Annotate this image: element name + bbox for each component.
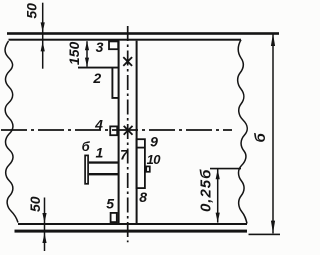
svg-text:9: 9 <box>150 134 158 150</box>
extension/tick line for 150 and top of tab 2 <box>78 67 119 69</box>
bottom plate upper edge <box>18 223 247 225</box>
weld seam right edge <box>136 41 138 224</box>
svg-text:0,25б: 0,25б <box>197 169 214 212</box>
svg-text:8: 8 <box>139 189 147 205</box>
vertical centerline of seam (dash-dot) <box>127 26 129 242</box>
dimension 0,25b: extension line <box>210 168 241 170</box>
dimension 0,25b: arrow up <box>216 169 220 179</box>
dimension 150: arrow down <box>85 58 89 67</box>
svg-text:б: б <box>252 132 269 142</box>
small lug 10 <box>146 166 150 171</box>
top plate upper edge (thick) <box>7 32 279 35</box>
right break (wavy) line <box>238 40 248 224</box>
dimension 0,25b: arrow down <box>216 213 220 223</box>
top plate lower edge <box>9 39 242 41</box>
svg-text:150: 150 <box>66 42 82 66</box>
svg-text:3: 3 <box>96 39 104 55</box>
dimension 0,25b: line <box>217 169 219 223</box>
dimension 50 bottom: line <box>44 198 46 252</box>
clamp bar B (vertical plate) <box>85 155 88 183</box>
tab 4 (tack plate) <box>110 126 117 135</box>
dimension 150: arrow up <box>85 41 89 50</box>
svg-text:50: 50 <box>23 3 39 19</box>
bottom plate lower edge (thick) <box>15 230 248 233</box>
right tab group outline (tacks 9/8) <box>137 139 145 188</box>
dimension b right: line <box>272 33 274 233</box>
svg-text:1: 1 <box>96 144 104 160</box>
svg-text:5: 5 <box>106 195 114 211</box>
divider line of tack 9 <box>137 147 145 149</box>
dimension 50 top: arrow up <box>41 41 45 51</box>
tab 2 (tack plate) <box>112 68 118 98</box>
svg-text:50: 50 <box>27 196 43 212</box>
svg-text:4: 4 <box>94 116 103 132</box>
weld seam left edge <box>118 41 120 224</box>
horizontal centerline (dash-dot) <box>1 129 232 131</box>
svg-text:б: б <box>82 139 91 154</box>
left break (wavy) line <box>5 41 18 223</box>
x-mark upper (tack weld cross) <box>123 57 132 66</box>
clamp strap 1 upper line <box>89 161 119 163</box>
tab 3 (tack plate) <box>109 41 118 49</box>
dimension 50 top: arrow down <box>41 22 45 32</box>
svg-text:10: 10 <box>147 152 162 167</box>
svg-text:2: 2 <box>92 70 101 86</box>
dimension b right: arrow down <box>271 221 275 234</box>
tab 5 (tack plate) <box>111 213 117 222</box>
bottom right extension line for dimension b <box>249 234 281 236</box>
dimension 50 bottom: arrow down <box>42 213 46 223</box>
dimension 150: line <box>86 41 88 66</box>
x-mark center (tack weld cross) <box>124 126 133 135</box>
dimension 50 bottom: arrow up <box>42 233 46 243</box>
dimension b right: arrow up <box>271 33 275 46</box>
svg-text:7: 7 <box>120 147 129 163</box>
clamp strap 1 lower line <box>89 173 119 175</box>
dimension 50 top: line <box>42 3 44 69</box>
